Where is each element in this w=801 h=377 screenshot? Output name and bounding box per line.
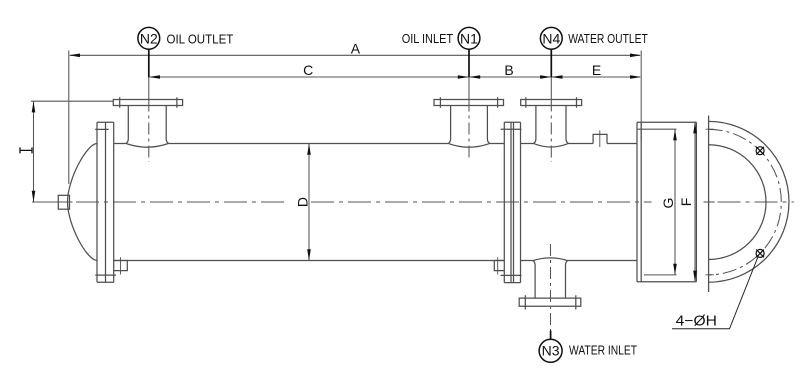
bolt hole symbol upper [756,147,764,155]
N1 centerline [468,100,470,159]
svg-text:N4: N4 [542,30,560,46]
girth flange pair (shell to channel) [504,122,520,282]
E right arrow [630,75,641,79]
dimension G line [674,129,676,275]
left flange bolt ticks [95,129,116,275]
A right arrow [630,54,641,58]
N2 leader line [148,49,150,77]
drain plug on left head [58,195,69,209]
svg-text:B: B [504,62,513,78]
svg-text:C: C [303,62,313,78]
N3 saddle arc [533,258,568,261]
F bottom arrow [693,271,697,282]
vent coupling centerline [599,131,601,148]
dimension I line [33,101,35,202]
G top arrow [673,129,677,140]
dimension E line [552,76,640,78]
bolt circle arc (dash-dot) [709,129,782,274]
channel end flange [637,122,696,282]
girth flange bolt ticks [501,129,522,275]
bolt circle end ticks [706,129,714,275]
N3 flange bolt ticks [525,295,576,309]
nozzle N3 flange (bottom) [519,298,581,306]
I top arrow [32,101,36,112]
dimension D line [308,144,310,261]
dimension B line [470,76,550,78]
N1 nozzle neck [448,106,490,144]
nozzle N1 flange [434,100,504,106]
I dimension bottom extension (centerline segment) [32,201,72,203]
G bottom arrow [673,264,677,275]
left girth flange pair [97,122,114,282]
F top arrow [693,122,697,133]
A left arrow [69,54,80,58]
svg-text:G: G [660,198,676,209]
N3 nozzle neck [533,261,568,299]
N4 flange bolt ticks [526,97,577,107]
svg-text:N1: N1 [460,30,478,46]
svg-text:N2: N2 [140,30,158,46]
N2 saddle arc on shell [126,143,169,147]
svg-text:N3: N3 [542,343,560,359]
N3 centerline [550,244,552,335]
leader line for 4-ØH [672,256,759,329]
end view outer circle arc [709,121,789,282]
shell top line [114,143,504,145]
N1 saddle arc [448,143,490,147]
channel bottom line [520,260,637,262]
svg-text:OIL INLET: OIL INLET [402,31,453,46]
girth drain coupling centerline [497,257,499,274]
centerline tick across end-view face line [704,201,715,203]
N4 centerline [550,100,552,163]
D bottom arrow [307,249,311,260]
svg-text:A: A [351,41,361,57]
N4 saddle arc [534,143,569,147]
drain coupling below shell at girth flange [494,261,504,271]
channel top line [520,143,637,145]
end view face line [708,116,710,293]
N2 flange bolt ticks [120,97,177,107]
svg-text:OIL OUTLET: OIL OUTLET [167,32,234,47]
svg-text:WATER INLET: WATER INLET [569,343,637,358]
svg-text:F: F [678,198,694,207]
dimension C line [150,76,468,78]
vent coupling on channel top [593,134,607,143]
C left arrow [149,75,160,79]
dimension A line [70,54,640,56]
svg-text:4−ØH: 4−ØH [676,314,717,330]
N2 centerline [148,100,150,163]
N2 balloon circle [138,27,160,49]
nozzle N4 flange [521,100,582,106]
D top arrow [307,144,311,155]
I bottom arrow [32,191,36,202]
bolt hole symbol lower [756,249,764,257]
N1 flange bolt ticks [440,97,497,107]
main horizontal centerline [76,201,794,203]
left drain coupling centerline [120,257,122,274]
dimension F line [694,122,696,282]
N4 leader line [550,49,552,77]
N4 balloon circle [540,27,562,49]
N3 balloon circle [539,339,562,362]
svg-text:WATER OUTLET: WATER OUTLET [568,31,648,46]
N1 balloon circle [458,27,480,49]
E left arrow [551,75,562,79]
svg-text:D: D [295,197,311,207]
svg-text:E: E [592,62,601,78]
N2 nozzle neck [126,106,169,144]
B left arrow [469,75,480,79]
dimension A extension lines [69,51,641,185]
left drain coupling below shell [114,261,128,271]
C right arrow [458,75,469,79]
shell bottom line [114,260,504,262]
dimension I extension line top [31,100,113,102]
nozzle N2 flange [113,100,182,106]
dimension G extension ticks [637,129,677,275]
N4 nozzle neck [534,106,569,144]
arrowheads [32,54,697,282]
B right arrow [540,75,551,79]
N1 leader line [468,49,470,77]
dimension label I (drawn with serifs, rotated) [20,147,32,153]
left head dished cover [68,144,98,261]
end view inner circle arc [709,145,766,260]
